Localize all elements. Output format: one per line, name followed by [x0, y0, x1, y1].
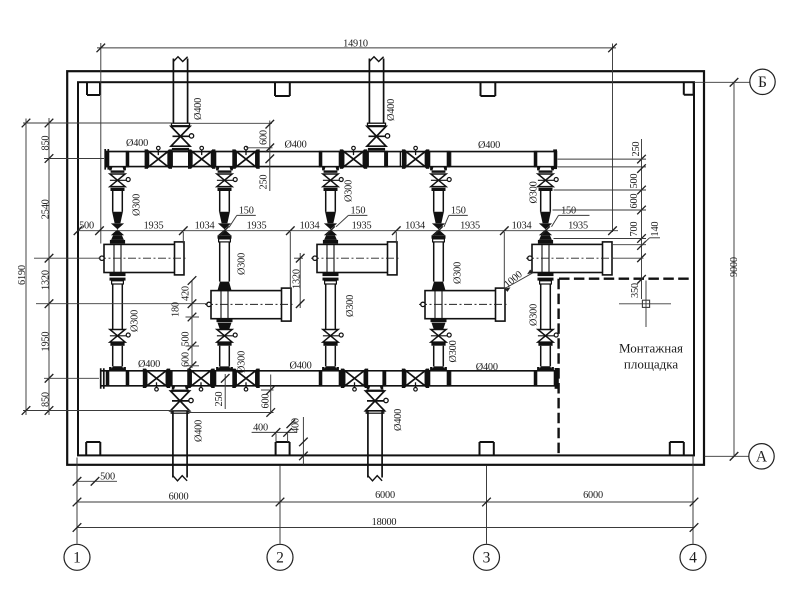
- svg-text:1320: 1320: [40, 270, 51, 290]
- svg-text:250: 250: [631, 142, 642, 157]
- dimension 500 bottom left: [73, 472, 117, 486]
- svg-text:1935: 1935: [247, 221, 267, 232]
- dimension chain 420/180/500/600 at x192: [186, 276, 200, 370]
- extension pump flange right: [554, 238, 647, 240]
- extension pump CL right: [612, 257, 644, 259]
- top header valve 3 stem: [244, 146, 248, 155]
- discharge stack pump P5: [538, 273, 559, 371]
- riser 2 top flange: [368, 123, 386, 126]
- pump tee top P4: [427, 151, 449, 171]
- bottom header joint pair x215.4: [214, 371, 216, 386]
- axis line 3: [486, 466, 488, 544]
- extension reducer right: [553, 209, 647, 211]
- svg-text:Ø300: Ø300: [529, 304, 540, 326]
- pump P3: [311, 242, 401, 275]
- top header right end cap: [553, 149, 557, 169]
- riser 2 top break line: [369, 57, 383, 62]
- bottom header pipe Ø400: [101, 371, 559, 386]
- column stub bottom 3: [480, 442, 494, 455]
- pump P5: [526, 242, 616, 275]
- extension pump top right: [612, 244, 646, 246]
- svg-text:Ø400: Ø400: [386, 99, 397, 121]
- svg-text:1034: 1034: [512, 221, 532, 232]
- column stub top 4: [684, 82, 694, 95]
- pump tee top P1: [106, 151, 128, 171]
- axis circle 2: [267, 544, 293, 570]
- svg-text:850: 850: [40, 136, 51, 151]
- svg-text:Ø300: Ø300: [237, 253, 248, 275]
- svg-text:600: 600: [629, 194, 640, 209]
- svg-text:500: 500: [181, 332, 192, 347]
- extension line pump row1 CL left: [34, 257, 100, 259]
- top header joint at x449.5: [449, 152, 451, 167]
- extension line pump P4 right: [503, 232, 505, 289]
- svg-text:А: А: [756, 449, 768, 466]
- svg-text:140: 140: [650, 222, 661, 237]
- svg-text:6190: 6190: [17, 265, 28, 285]
- leader 150 at pump x438.5: [444, 206, 468, 227]
- discharge stack pump P1: [110, 273, 131, 371]
- top header valve 1 stem: [157, 146, 161, 155]
- svg-text:Ø300: Ø300: [529, 181, 540, 203]
- svg-text:1950: 1950: [40, 332, 51, 352]
- top header joint pair x401.5: [400, 151, 403, 167]
- column stub bottom 2: [276, 442, 290, 455]
- riser pipe 2 top Ø400: [369, 59, 383, 124]
- extension line riser valve bottom left: [23, 410, 190, 412]
- extension line pump row2 CL left: [36, 303, 208, 305]
- pump tee bottom P3: [319, 367, 341, 386]
- dimension 400/400 at column stub 2: [252, 418, 302, 442]
- riser 1 top break line: [173, 57, 187, 62]
- riser pipe 1 top Ø400: [173, 59, 187, 124]
- bottom header joint at x536: [535, 371, 537, 386]
- suction stack pump P2: [217, 170, 237, 290]
- top header valve 2 stem: [200, 146, 204, 155]
- extension line riser flange right: [190, 122, 272, 124]
- svg-text:500: 500: [100, 472, 115, 483]
- riser 1 bottom break line: [173, 476, 187, 481]
- chain dimension line 500/1935/1034: [74, 226, 618, 235]
- svg-text:6000: 6000: [583, 490, 603, 501]
- top header valve 5: [402, 149, 429, 168]
- discharge stack pump P2: [217, 319, 238, 371]
- leader 1000 diagonal between pumps P4 P5: [502, 269, 533, 292]
- bottom header valve 4: [341, 369, 368, 388]
- svg-text:9000: 9000: [729, 257, 740, 277]
- dimension 250 below bottom header: [214, 374, 230, 409]
- riser 2 lower flange: [368, 148, 385, 151]
- axis line 2: [279, 466, 281, 544]
- pump tee top P5: [534, 151, 556, 171]
- top header valve 2: [188, 149, 215, 168]
- dimension line at x303.4: [299, 417, 308, 465]
- svg-text:1935: 1935: [352, 221, 372, 232]
- svg-text:площадка: площадка: [624, 356, 678, 371]
- column stub top 3: [481, 82, 496, 96]
- mounting area dashed boundary horizontal: [559, 278, 694, 280]
- top header valve 5 stem: [414, 146, 418, 155]
- pump tee top P3: [319, 151, 341, 171]
- svg-text:Ø300: Ø300: [132, 194, 143, 216]
- svg-text:Ø300: Ø300: [130, 310, 141, 332]
- riser 2 bottom break line: [368, 476, 382, 481]
- svg-text:Ø300: Ø300: [345, 295, 356, 317]
- dimension 9000 right: [729, 82, 740, 456]
- mounting area dashed boundary vertical: [557, 279, 559, 456]
- bottom header left end cap: [101, 368, 104, 389]
- column stub bottom 1: [86, 442, 100, 455]
- svg-text:250: 250: [214, 392, 225, 407]
- dimension 6190 left: [17, 119, 30, 416]
- riser 2 bottom valve: [366, 391, 389, 411]
- svg-text:600: 600: [261, 394, 272, 409]
- top header valve 4: [340, 149, 367, 168]
- riser 1 lower flange: [172, 148, 189, 151]
- leader 150 at pump x330.5: [336, 206, 367, 227]
- column stub top 2: [275, 82, 290, 96]
- top header pipe Ø400: [105, 152, 557, 167]
- discharge stack pump P3: [323, 273, 344, 371]
- bottom header valve 3 stem: [244, 382, 248, 391]
- extension valve flange right: [554, 189, 647, 191]
- riser 2 bottom tee: [364, 370, 385, 392]
- bottom header valve 2 stem: [199, 382, 203, 391]
- svg-text:Ø400: Ø400: [284, 140, 306, 151]
- svg-text:3: 3: [483, 550, 491, 567]
- svg-text:1935: 1935: [144, 221, 164, 232]
- svg-text:400: 400: [253, 422, 268, 433]
- building wall inner contour: [78, 82, 694, 455]
- svg-text:1935: 1935: [568, 221, 588, 232]
- right chain dimension 250/500/600/700/140/350: [637, 139, 646, 299]
- dimension 14910 top: [97, 38, 617, 243]
- dimension 600 below bottom header: [189, 375, 276, 417]
- svg-text:2540: 2540: [40, 199, 51, 219]
- svg-text:700: 700: [629, 222, 640, 237]
- pump tee bottom P5: [534, 367, 556, 386]
- column stub top 1: [87, 82, 100, 95]
- suction stack pump P1: [110, 170, 130, 243]
- bottom header valve 1 stem: [155, 382, 159, 391]
- svg-text:Ø400: Ø400: [126, 138, 148, 149]
- column stub bottom 4: [670, 442, 684, 455]
- svg-text:4: 4: [689, 550, 697, 567]
- building wall outer contour: [67, 71, 704, 465]
- extension line bottom header CL left: [44, 377, 99, 379]
- dimension 600/250 near riser 1: [246, 120, 274, 191]
- top header valve 4 stem: [352, 146, 356, 155]
- top header valve 3: [232, 149, 259, 168]
- svg-text:Ø300: Ø300: [237, 351, 248, 373]
- svg-text:Ø400: Ø400: [194, 420, 205, 442]
- top header left end cap: [105, 149, 108, 170]
- bottom header valve 4 stem: [353, 382, 357, 391]
- riser pipe 2 bottom Ø400: [368, 410, 382, 478]
- svg-text:Ø400: Ø400: [193, 98, 204, 120]
- svg-text:600: 600: [259, 130, 270, 145]
- suction stack pump P3: [323, 170, 343, 243]
- extension line pump P3 right: [395, 232, 397, 244]
- bottom header valve 2: [187, 369, 214, 388]
- svg-text:Б: Б: [758, 74, 767, 91]
- pump tee bottom P2: [213, 367, 235, 386]
- svg-text:Монтажная: Монтажная: [619, 341, 683, 356]
- riser 1 bottom tee: [169, 370, 190, 392]
- svg-text:1034: 1034: [300, 221, 320, 232]
- leader 150 at pump x224.5: [229, 206, 256, 228]
- suction stack pump P4: [431, 170, 451, 290]
- axis line 4: [692, 456, 694, 544]
- svg-text:600: 600: [181, 352, 192, 367]
- svg-text:6000: 6000: [169, 492, 189, 503]
- svg-text:18000: 18000: [372, 517, 397, 528]
- extension line riser flange left: [23, 122, 173, 124]
- riser 2 header tee: [366, 151, 388, 167]
- svg-text:Ø400: Ø400: [289, 361, 311, 372]
- pump tee top P2: [213, 151, 235, 171]
- svg-text:1: 1: [73, 550, 81, 567]
- riser 1 header tee: [170, 151, 192, 167]
- svg-text:14910: 14910: [343, 38, 368, 49]
- svg-text:500: 500: [79, 221, 94, 232]
- extension line header CL left: [44, 158, 104, 160]
- dimension 1320 between pump rows: [292, 253, 305, 308]
- bottom header right end cap: [555, 368, 559, 389]
- axis circle 3: [474, 544, 500, 570]
- axis line 1: [76, 458, 78, 544]
- extension header CL right: [558, 158, 647, 160]
- svg-text:Ø400: Ø400: [478, 140, 500, 151]
- riser 1 bottom valve: [171, 391, 194, 411]
- pump tee bottom P4: [427, 367, 449, 386]
- dimension 18000: [73, 517, 699, 532]
- top header valve 1: [145, 149, 172, 168]
- svg-text:1935: 1935: [460, 221, 480, 232]
- suction stack pump P5: [538, 170, 558, 243]
- bottom header valve 3: [232, 369, 259, 388]
- svg-text:Ø300: Ø300: [453, 262, 464, 284]
- extension line pump P1 right: [182, 232, 184, 244]
- axis circle B: [694, 69, 775, 94]
- axis circle 1: [64, 544, 90, 570]
- axis circle 4: [680, 544, 706, 570]
- riser 1 bottom collar: [171, 411, 189, 413]
- bottom header valve 5 stem: [414, 382, 418, 391]
- svg-text:350: 350: [630, 283, 641, 298]
- svg-text:1320: 1320: [292, 269, 303, 289]
- svg-text:1034: 1034: [405, 221, 425, 232]
- top header joint pair x219.6: [219, 152, 221, 167]
- svg-text:500: 500: [629, 174, 640, 189]
- pump tee bottom P1: [106, 367, 128, 386]
- svg-text:Ø400: Ø400: [476, 362, 498, 373]
- svg-text:6000: 6000: [375, 490, 395, 501]
- leader 150 at pump x545.5: [552, 206, 590, 227]
- bottom header joint at x449.5: [449, 371, 451, 386]
- riser 2 bottom collar: [366, 411, 384, 413]
- riser 2 valve Ø400: [367, 126, 390, 146]
- bottom header valve 1: [143, 369, 170, 388]
- svg-text:Ø400: Ø400: [393, 409, 404, 431]
- extension header bottom right: [558, 166, 647, 168]
- svg-text:420: 420: [181, 286, 192, 301]
- svg-text:250: 250: [259, 175, 270, 190]
- svg-text:850: 850: [40, 392, 51, 407]
- leader 140 right: [642, 222, 662, 246]
- extension line pump P2 right: [289, 232, 291, 289]
- axis circle A: [705, 444, 775, 469]
- svg-text:Ø400: Ø400: [138, 359, 160, 370]
- riser 1 top flange: [172, 123, 190, 126]
- discharge stack pump P4: [431, 319, 452, 371]
- riser 1 valve Ø400: [171, 126, 194, 146]
- svg-text:180: 180: [171, 302, 182, 317]
- dimension row 6000/6000/6000: [73, 490, 699, 507]
- left chain dimension 850/2540/1320/1950/850: [45, 118, 54, 415]
- svg-text:Ø300: Ø300: [344, 180, 355, 202]
- riser pipe 1 bottom Ø400: [173, 410, 187, 478]
- reference point marker cross lines: [619, 281, 671, 328]
- svg-text:400: 400: [291, 418, 302, 433]
- pump P4: [419, 288, 509, 321]
- pump P2: [205, 288, 295, 321]
- pump P1: [98, 242, 188, 275]
- bottom header valve 5: [402, 369, 429, 388]
- svg-text:2: 2: [276, 550, 284, 567]
- svg-text:Ø300: Ø300: [448, 340, 459, 362]
- svg-text:1034: 1034: [195, 221, 215, 232]
- top header joint at x536: [535, 152, 537, 167]
